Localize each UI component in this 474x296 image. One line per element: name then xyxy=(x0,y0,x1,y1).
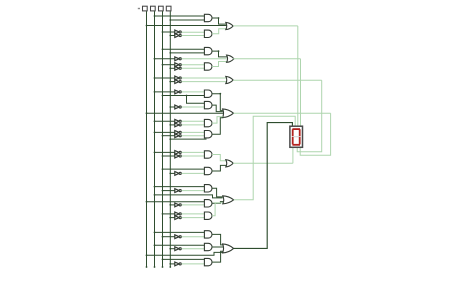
wire H3 in1 (bus3) xyxy=(162,259,205,261)
wire NOTG3 out xyxy=(182,213,205,215)
wire NOTE2 in (bus4) xyxy=(169,124,174,126)
wire NOTF2 out xyxy=(182,155,205,157)
wire NOTG4 in (bus4) xyxy=(169,217,174,219)
wire NOTE2 out xyxy=(182,124,205,126)
AND gate E2 xyxy=(204,131,212,138)
wire H1 in1 (bus2) xyxy=(154,232,205,234)
wire segD route xyxy=(300,113,330,155)
wire H2 in1 (bus2) xyxy=(154,244,205,246)
wire E1 out elbow xyxy=(212,117,223,124)
wire H1 out elbow xyxy=(212,234,223,245)
NOT gate A2 xyxy=(175,34,181,38)
wire ORD mid (bus1) xyxy=(146,112,224,114)
wire F2 out elbow xyxy=(212,165,227,171)
input pin P3 xyxy=(159,6,164,11)
NOT gate H3 xyxy=(175,262,181,266)
wire B1 in1 (bus3) xyxy=(162,48,205,50)
NOT gate G1 xyxy=(175,189,181,193)
NOT gate B3 xyxy=(175,66,181,70)
wire NOTE1 in (bus2) xyxy=(154,120,175,122)
wire ORH jog (bus1) xyxy=(146,252,223,256)
wire B1 out elbow xyxy=(212,50,227,57)
AND gate A1 xyxy=(204,14,212,21)
AND gate G2 xyxy=(204,200,212,207)
AND gate A2 xyxy=(204,30,212,37)
wire segF out xyxy=(233,162,293,164)
wire H2 out xyxy=(212,246,224,248)
wire NOTG2 in (bus4) xyxy=(169,204,174,206)
AND gate H3 xyxy=(204,258,212,265)
wire G1 in1 (bus2) xyxy=(154,186,205,188)
wire NOTB1 in (bus2) xyxy=(154,58,175,60)
wire NOTB2 in (bus3) xyxy=(162,64,175,66)
wire F1 out elbow xyxy=(212,155,227,161)
wire NOTA2 in (bus4) xyxy=(169,35,174,37)
wire NOTD1 out xyxy=(182,91,205,93)
NOT gate H2 xyxy=(175,247,181,251)
wire NOTH2 out xyxy=(182,248,205,250)
wire A1 in1 (bus2) xyxy=(154,15,205,17)
pin label xyxy=(138,8,140,9)
wire segA drop xyxy=(297,26,299,126)
wire NOTF3 out xyxy=(182,172,205,174)
wire segG out xyxy=(234,116,296,200)
wire D tee (bus3) xyxy=(162,95,188,97)
wire NOTH1 out xyxy=(182,236,205,238)
wire NOTD2 in (bus4) xyxy=(169,106,174,108)
wire NOTF3 in (bus4) xyxy=(169,173,174,175)
wire NOTC2 in (bus4) xyxy=(169,81,174,83)
NOT gate G2 xyxy=(175,203,181,207)
wire NOTD1 in (bus2) xyxy=(154,91,175,93)
wire NOTE4 out xyxy=(182,135,205,137)
wire NOTB2 out xyxy=(182,64,205,66)
wire B2 out elbow xyxy=(212,62,227,67)
wire ORA mid (bus1) xyxy=(146,25,227,27)
wire segC out xyxy=(233,79,322,81)
NOT gate C2 xyxy=(175,80,181,84)
NOT gate G3 xyxy=(175,212,181,216)
wire segA out xyxy=(233,25,298,27)
wire NOTE1 out xyxy=(182,120,205,122)
wire NOTG2 out xyxy=(182,204,205,206)
OR gate H wide xyxy=(223,244,234,253)
wire segB out xyxy=(233,58,300,60)
NOT gate F2 xyxy=(175,154,181,158)
NOT gate F3 xyxy=(175,172,181,176)
wire G3 out elbow xyxy=(212,203,223,216)
wire ORG jog (bus2) xyxy=(154,194,223,198)
wire B1 in2 (bus4) xyxy=(169,52,204,54)
wire NOTD2 out xyxy=(182,106,205,108)
AND gate G1 xyxy=(204,185,212,192)
NOT gate E4 xyxy=(175,134,181,138)
wire A1 out elbow xyxy=(212,17,227,24)
NOT gate B2 xyxy=(175,63,181,67)
NOT gate E1 xyxy=(175,119,181,123)
AND gate G3 xyxy=(204,212,212,219)
OR gate F xyxy=(226,160,233,167)
wire NOTA1 out xyxy=(182,31,205,33)
wire NOTF1 out xyxy=(182,151,205,153)
wire NOTB3 in (bus4) xyxy=(169,67,174,69)
wire NOTB1 out long xyxy=(182,58,227,60)
input pin P1 xyxy=(143,6,148,11)
wire D tee branch1 xyxy=(187,95,205,97)
bus wire B3 vertical xyxy=(162,11,164,268)
wire segB drop xyxy=(300,59,302,127)
OR gate C xyxy=(226,76,233,83)
NOT gate H1 xyxy=(175,235,181,239)
wire E2 stub (bus4) xyxy=(169,138,206,140)
wire NOTE3 in (bus2) xyxy=(154,132,175,134)
wire NOTC1 out long xyxy=(182,77,227,79)
wire G2 in1 (bus1) xyxy=(146,201,205,203)
wire F2 in1 (bus3) xyxy=(162,168,205,170)
NOT gate A1 xyxy=(175,30,181,34)
input pin P2 xyxy=(151,6,156,11)
wire segE out dark xyxy=(234,123,293,249)
bus wire B2 vertical xyxy=(154,11,156,268)
wire A1 in2 (bus4) xyxy=(169,19,204,21)
OR gate A xyxy=(226,22,233,29)
NOT gate D2 xyxy=(175,105,181,109)
OR gate G wide xyxy=(223,196,234,204)
wire segF rise xyxy=(292,147,294,163)
wire G1 out elbow xyxy=(212,188,223,197)
7-segment display U1 xyxy=(290,126,303,147)
NOT gate D1 xyxy=(175,90,181,94)
AND gate H1 xyxy=(204,231,212,238)
wire D2 out elbow xyxy=(212,105,223,112)
wire NOTH2 in (bus4) xyxy=(169,248,174,250)
bus wire B1 vertical xyxy=(146,11,148,268)
input pin P4 xyxy=(166,6,171,11)
wire NOTF1 in (bus2) xyxy=(154,152,175,154)
AND gate F2 xyxy=(204,167,212,174)
wire D1 out elbow xyxy=(212,93,223,111)
wire NOTG3 in (bus3) xyxy=(162,213,175,215)
wire NOTA2 out xyxy=(182,35,205,37)
wire NOTF2 in (bus3) xyxy=(162,155,175,157)
wire G2 out elbow xyxy=(212,202,223,204)
AND gate B2 xyxy=(204,63,212,70)
wire D tee branch2 xyxy=(187,96,205,104)
NOT gate E3 xyxy=(175,131,181,135)
wire NOTG4 out xyxy=(182,217,205,219)
NOT gate E2 xyxy=(175,123,181,127)
AND gate D2 xyxy=(204,101,212,108)
wire A2 out elbow xyxy=(212,29,227,34)
wire NOTC1 in (bus2) xyxy=(154,77,175,79)
wire NOTE4 in (bus3) xyxy=(162,135,175,137)
wire NOTG1 out xyxy=(182,190,205,192)
AND gate F1 xyxy=(204,151,212,158)
bus wire B4 vertical xyxy=(169,11,171,268)
wire H3 out elbow xyxy=(212,251,223,262)
OR gate B xyxy=(227,55,234,62)
wire NOTC2 out long xyxy=(182,81,227,83)
OR gate D wide xyxy=(223,109,234,118)
NOT gate G4 xyxy=(175,216,181,220)
AND gate H2 xyxy=(204,243,212,250)
AND gate D1 xyxy=(204,90,212,97)
NOT gate B1 xyxy=(175,57,181,61)
wire NOTH3 in (bus4) xyxy=(169,263,174,265)
wire E2 out elbow xyxy=(212,118,223,134)
wire segC route xyxy=(297,80,322,152)
NOT gate F1 xyxy=(175,151,181,155)
wire NOTH1 in (bus3) xyxy=(162,236,175,238)
AND gate E1 xyxy=(204,119,212,126)
wire NOTB3 out xyxy=(182,67,205,69)
wire segD out xyxy=(234,112,331,114)
wire NOTE3 out xyxy=(182,131,205,133)
wire NOTH3 out xyxy=(182,263,205,265)
AND gate B1 xyxy=(204,47,212,54)
NOT gate C1 xyxy=(175,76,181,80)
wire NOTG1 in (bus3) xyxy=(162,190,175,192)
wire NOTA1 in (bus3) xyxy=(162,31,175,33)
